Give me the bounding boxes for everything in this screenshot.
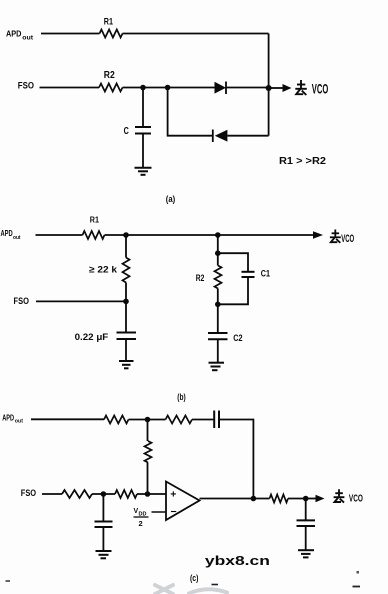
resistor feedback vertical (c) xyxy=(145,441,152,463)
wire R to out node (c) xyxy=(288,498,306,500)
svg-text:FSO: FSO xyxy=(18,80,34,90)
wire feedback vertical (c) xyxy=(147,420,149,442)
wire C to ground (a) xyxy=(142,134,144,168)
stray mark right lower xyxy=(353,586,361,588)
resistor input top (c) xyxy=(104,416,129,424)
svg-text:+: + xyxy=(170,489,176,501)
op-amp U1 (c) xyxy=(166,482,200,521)
wire R to cap node (c) xyxy=(92,493,115,495)
capacitor 0.22uF (b) xyxy=(117,333,137,340)
wire feedback to plus input (c) xyxy=(147,463,149,495)
wire FSO to node (b) xyxy=(36,300,126,302)
wire loop down from node (a) xyxy=(168,88,213,136)
svg-text:(a): (a) xyxy=(166,194,175,204)
node junction to loop (a) xyxy=(165,85,171,91)
wire R to op-amp plus (c) xyxy=(137,493,166,495)
svg-text:out: out xyxy=(15,419,23,425)
wire R to feedback cap (c) xyxy=(192,419,214,421)
label 去 (a) xyxy=(295,80,307,95)
node R2C1 top split (b) xyxy=(215,250,221,256)
label VDD/2 (c) xyxy=(134,508,149,528)
svg-text:VCO: VCO xyxy=(349,492,363,504)
node plus input (c) xyxy=(145,491,151,497)
wire node to FSO cap (c) xyxy=(102,494,104,522)
wire D1 to output node (a) xyxy=(226,87,269,89)
wire C1 to bottom join (b) xyxy=(218,277,248,304)
resistor FSO second (c) xyxy=(115,490,137,498)
output arrow to VCO (c) xyxy=(306,495,325,502)
resistor R2 (a) xyxy=(99,84,123,92)
svg-text:APD: APD xyxy=(6,29,21,39)
svg-text:(c): (c) xyxy=(190,573,198,583)
wire R1 to right corner (a) xyxy=(123,33,269,35)
svg-text:FSO: FSO xyxy=(14,296,29,307)
node feedback top (c) xyxy=(145,417,151,423)
wire cap to ground left (c) xyxy=(102,527,104,551)
svg-text:2: 2 xyxy=(139,519,143,528)
ground C2 (b) xyxy=(209,363,225,371)
watermark gray X curve xyxy=(155,585,227,594)
svg-text:out: out xyxy=(22,35,33,41)
svg-text:C: C xyxy=(124,126,129,137)
svg-text:(b): (b) xyxy=(177,392,185,402)
wire 22k to FSO node (b) xyxy=(125,283,127,302)
node R2C1 bottom join (b) xyxy=(215,302,221,308)
wire R2 to diode D1 (a) xyxy=(123,87,215,89)
wire FSO to R2 (a) xyxy=(40,87,100,89)
wire node to output cap (c) xyxy=(305,499,307,521)
svg-text:ybx8.cn: ybx8.cn xyxy=(205,554,270,568)
resistor R1 (a) xyxy=(100,30,123,38)
svg-text:C2: C2 xyxy=(233,333,242,344)
wire node to cap 0.22 (b) xyxy=(125,301,127,332)
svg-text:APD: APD xyxy=(2,412,14,422)
wire R1 to arrow (b) xyxy=(105,234,314,236)
wire split to C1 branch top (b) xyxy=(218,253,248,272)
svg-text:VCO: VCO xyxy=(341,233,354,245)
capacitor C (a) xyxy=(135,88,151,134)
resistor feedback top (c) xyxy=(166,416,193,424)
output arrow to VCO (b) xyxy=(313,231,323,238)
node FSO junction (b) xyxy=(123,299,129,305)
wire APDout to R1 (a) xyxy=(41,33,100,35)
resistor output (c) xyxy=(270,495,289,503)
resistor R1 (b) xyxy=(83,231,105,239)
svg-text:FSO: FSO xyxy=(21,488,36,498)
svg-text:−: − xyxy=(171,506,177,518)
ground left (c) xyxy=(96,551,112,558)
wire R to feedback node (c) xyxy=(129,419,166,421)
wire C2 to ground (b) xyxy=(217,339,219,362)
wire R2 to bottom join (b) xyxy=(217,289,219,305)
wire D2 to right vertical (a) xyxy=(227,135,268,137)
capacitor C1 (b) xyxy=(242,272,255,277)
resistor 22k (b) xyxy=(123,258,130,283)
wire right vertical (a) xyxy=(268,34,270,136)
ground (a) xyxy=(135,168,152,175)
wire cap to ground (b) xyxy=(125,339,127,361)
wire minus input (c) xyxy=(152,511,167,513)
label APDout (c) xyxy=(2,412,23,424)
stray mark below ybx8 xyxy=(212,584,219,586)
label 去 (b) xyxy=(330,230,341,243)
wire split to R2 (b) xyxy=(217,253,219,265)
resistor FSO first (c) xyxy=(62,490,92,498)
wire FSO to first R (c) xyxy=(42,493,62,495)
ground FSO cap (b) xyxy=(119,361,134,368)
capacitor feedback (c) xyxy=(214,411,219,429)
wire join to C2 (b) xyxy=(217,304,219,333)
svg-text:R2: R2 xyxy=(104,70,115,81)
resistor R2 (b) xyxy=(215,266,222,289)
diode D2 (a) xyxy=(213,130,228,143)
node output feedback (c) xyxy=(251,496,257,502)
stray dot right xyxy=(357,571,360,574)
node R2 branch (b) xyxy=(215,232,221,238)
wire op-amp output (c) xyxy=(200,498,270,500)
svg-text:APD: APD xyxy=(1,228,13,238)
svg-text:0.22 μF: 0.22 μF xyxy=(75,332,109,342)
node output (a) xyxy=(266,85,272,91)
capacitor C2 (b) xyxy=(208,333,228,339)
svg-text:R1 > >R2: R1 > >R2 xyxy=(279,155,326,167)
svg-text:VCO: VCO xyxy=(312,81,329,97)
wire APDout to R input (c) xyxy=(31,418,104,420)
stray mark bottom left xyxy=(6,580,11,582)
svg-text:R2: R2 xyxy=(196,273,205,284)
wire cap to output node (c) xyxy=(219,420,253,499)
diode D1 (a) xyxy=(215,82,227,95)
wire cap to ground right (c) xyxy=(305,526,307,550)
wire APDout to R1 (b) xyxy=(36,234,83,236)
label APDout (a) xyxy=(6,29,33,42)
node output cap (c) xyxy=(303,496,309,502)
label 去 (c) xyxy=(334,489,345,502)
capacitor output (c) xyxy=(297,520,316,526)
node R1 branch (b) xyxy=(123,232,129,238)
node junction to C (a) xyxy=(140,85,146,91)
svg-text:R1: R1 xyxy=(90,215,100,224)
wire node to R2C1 split (b) xyxy=(217,235,219,253)
svg-text:R1: R1 xyxy=(104,16,114,27)
output arrow to VCO (a) xyxy=(269,84,292,92)
capacitor FSO bypass (c) xyxy=(95,522,113,528)
node FSO cap (c) xyxy=(101,491,107,497)
label APDout (b) xyxy=(1,228,21,241)
ground right (c) xyxy=(298,550,314,557)
wire node to 22k (b) xyxy=(125,235,127,258)
svg-text:C1: C1 xyxy=(261,269,271,280)
svg-text:out: out xyxy=(13,235,21,241)
svg-text:≥ 22 k: ≥ 22 k xyxy=(89,264,118,275)
